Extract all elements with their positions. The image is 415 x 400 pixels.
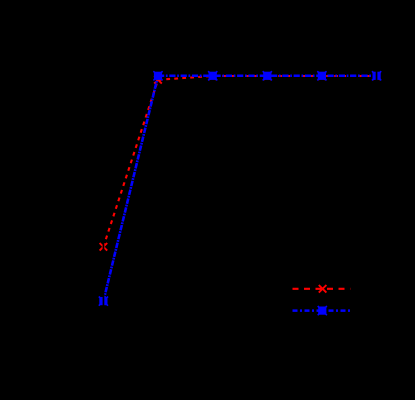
legend red x marker <box>319 285 327 293</box>
right axis spine (black, splits last markers) <box>376 0 378 395</box>
left axis spine (black, splits first markers) <box>103 0 105 395</box>
legend blue square+x marker <box>318 306 327 315</box>
blue series line rising segment (dash-dot, dense) <box>103 76 158 301</box>
blue series line plateau segment (dash-dot) <box>158 75 377 78</box>
red series x markers <box>100 72 381 250</box>
legend blue sample line <box>293 309 351 312</box>
blue series square+x markers <box>99 71 381 306</box>
legend red sample line <box>293 288 351 290</box>
red series line (dashed) <box>103 76 376 247</box>
